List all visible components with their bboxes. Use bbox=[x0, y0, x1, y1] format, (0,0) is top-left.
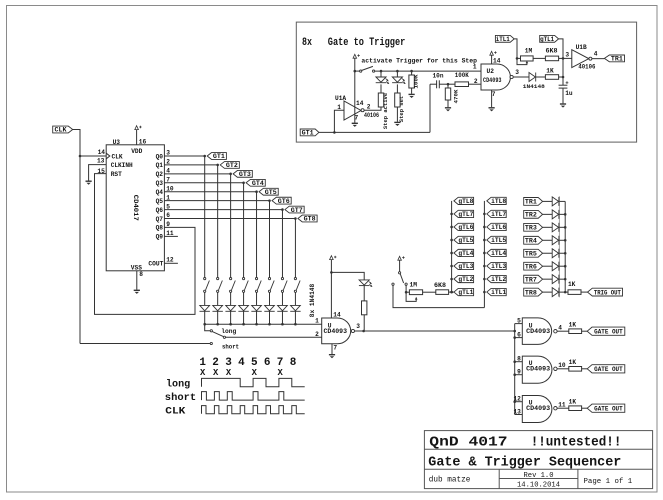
diode step 1 1N4148 bbox=[200, 305, 210, 311]
wire TR diode bus vertical bbox=[564, 201, 566, 292]
resistor LED current limit bbox=[362, 301, 367, 315]
svg-text:gTL1: gTL1 bbox=[540, 36, 554, 43]
LED Step set bbox=[392, 77, 406, 84]
inverter U1A 40106 bbox=[344, 101, 361, 120]
node junction long bus 3 bbox=[229, 323, 232, 326]
svg-text:short: short bbox=[222, 343, 239, 350]
svg-text:gTL1: gTL1 bbox=[458, 289, 473, 296]
flag iTL2 bbox=[487, 275, 506, 282]
resistor 1K gate out 1 bbox=[569, 329, 582, 334]
diode step 7 1N4148 bbox=[277, 305, 287, 311]
ground below 100K bbox=[409, 94, 415, 98]
svg-text:CLKINH: CLKINH bbox=[111, 162, 133, 169]
node junction long bus 2 bbox=[216, 323, 219, 326]
nand gate U CD4093 (gate mixer) bbox=[322, 318, 351, 344]
flag TRIG OUT bbox=[588, 288, 623, 296]
node junction Q4 bbox=[255, 190, 258, 193]
wire Q4 down to switch bbox=[256, 192, 258, 278]
wire gTL1 down bbox=[559, 39, 563, 59]
node junction Q0 bbox=[203, 155, 206, 158]
switch step 7 bbox=[281, 278, 287, 293]
svg-text:GATE OUT: GATE OUT bbox=[594, 366, 623, 373]
svg-text:Rev 1.0: Rev 1.0 bbox=[524, 472, 554, 480]
wire 1K to node bbox=[559, 76, 563, 78]
svg-text:2: 2 bbox=[315, 331, 319, 338]
title block row separator 1 bbox=[424, 448, 652, 450]
svg-text:Q8: Q8 bbox=[156, 225, 164, 232]
node junction iTL6 bbox=[483, 226, 486, 229]
node junction iTL2 bbox=[483, 278, 486, 281]
resistor 100K to U2 pin2 bbox=[455, 82, 469, 87]
node junction Q5 bbox=[268, 199, 271, 202]
svg-text:1N4148: 1N4148 bbox=[523, 83, 546, 90]
svg-text:CD4017: CD4017 bbox=[132, 195, 139, 221]
resistor 470K to ground bbox=[447, 84, 449, 88]
power +V for U2 bbox=[490, 51, 497, 55]
node junction iTL1 bbox=[483, 291, 486, 294]
wire power to switch bbox=[399, 260, 401, 272]
wire CLKINH pin 13 to ground bbox=[89, 165, 107, 181]
wire diode 1 to long bus bbox=[204, 311, 206, 324]
title block row separator 2 bbox=[424, 468, 652, 470]
waveform long bbox=[202, 378, 305, 386]
wire diode 5 to long bus bbox=[256, 311, 258, 324]
svg-text:1M: 1M bbox=[525, 47, 533, 54]
svg-text:12: 12 bbox=[166, 256, 174, 263]
node junction iTL4 bbox=[483, 252, 486, 255]
wire nand output to bottom gates bbox=[355, 330, 515, 332]
wire U1A input bbox=[334, 110, 344, 132]
waveform CLK bbox=[202, 406, 305, 414]
inverter U1B 40106 bbox=[572, 50, 589, 68]
svg-text:!!untested!!: !!untested!! bbox=[531, 434, 622, 450]
svg-text:gTL4: gTL4 bbox=[458, 250, 473, 257]
svg-text:long: long bbox=[221, 328, 236, 335]
flag iTL7 bbox=[487, 210, 506, 217]
wire 1M left lead bbox=[517, 57, 521, 59]
node junction gTL2 bbox=[450, 278, 453, 281]
svg-text:4: 4 bbox=[594, 51, 598, 58]
flag TR5 bbox=[524, 249, 543, 257]
wire power to LED bbox=[331, 272, 364, 280]
wire TR5 to diode bbox=[543, 252, 553, 254]
svg-text:gTL2: gTL2 bbox=[458, 276, 473, 283]
flag gTL8 bbox=[454, 197, 474, 204]
diode TR1 bbox=[552, 197, 559, 206]
wire TR1 to diode bbox=[543, 200, 553, 202]
svg-text:8x 1N4148: 8x 1N4148 bbox=[309, 284, 316, 318]
svg-text:1M: 1M bbox=[410, 281, 418, 288]
wire LED1 to resistor bbox=[380, 84, 382, 93]
flag GT3 bbox=[233, 170, 252, 177]
node junction gTL1 bbox=[450, 291, 453, 294]
node junction iTL3 bbox=[483, 265, 486, 268]
svg-text:6: 6 bbox=[264, 357, 271, 369]
node junction TR bus 3 bbox=[564, 226, 567, 229]
ground below main nand bbox=[329, 355, 335, 359]
ground below 470K bbox=[445, 108, 451, 112]
wire long bus to long contact bbox=[205, 324, 211, 331]
svg-text:Q5: Q5 bbox=[156, 198, 164, 205]
svg-text:8x: 8x bbox=[302, 37, 312, 49]
wire 470K to ground bbox=[447, 100, 449, 107]
flag gTL1 bbox=[540, 35, 559, 42]
LED Step active bbox=[376, 77, 390, 84]
wire switch 6 to diode bbox=[269, 292, 271, 305]
svg-text:10n: 10n bbox=[433, 73, 444, 80]
node junction 1M wiper bbox=[405, 291, 408, 294]
wire switch 3 to diode bbox=[230, 292, 232, 305]
svg-text:gTL6: gTL6 bbox=[458, 224, 473, 231]
svg-text:dub matze: dub matze bbox=[429, 476, 471, 485]
wire diode to 1K bbox=[536, 76, 546, 78]
wire TR8 to diode bbox=[543, 291, 553, 293]
wire Q9 stub bbox=[164, 235, 178, 237]
svg-text:TR6: TR6 bbox=[525, 263, 537, 270]
svg-text:9: 9 bbox=[166, 221, 170, 228]
svg-text:3: 3 bbox=[515, 69, 519, 76]
svg-text:TR4: TR4 bbox=[525, 237, 537, 244]
node junction iTL7 bbox=[483, 213, 486, 216]
ground below U1A bbox=[352, 123, 358, 127]
pin 6 stub bbox=[515, 337, 523, 339]
wire 6K8 to node bbox=[559, 57, 563, 59]
svg-text:1u: 1u bbox=[565, 90, 573, 97]
svg-text:CLK: CLK bbox=[55, 127, 67, 134]
svg-text:100K: 100K bbox=[455, 72, 469, 79]
flag GT1 bbox=[207, 153, 226, 160]
node junction TR bus 2 bbox=[564, 213, 567, 216]
svg-text:CD4093: CD4093 bbox=[526, 405, 550, 412]
wire to LED2 bbox=[396, 71, 398, 77]
wire gate2 output bbox=[557, 368, 569, 370]
wire 1M to 6K8 bbox=[423, 291, 436, 293]
svg-text:CLK: CLK bbox=[112, 153, 123, 160]
svg-text:4: 4 bbox=[558, 325, 562, 332]
flag iTL5 bbox=[487, 236, 506, 243]
flag GT5 bbox=[259, 188, 278, 195]
svg-text:X: X bbox=[252, 368, 258, 378]
switch step 8 bbox=[294, 278, 300, 293]
LED gate indicator bbox=[359, 280, 373, 287]
wire U1B output bbox=[592, 58, 605, 60]
svg-text:long: long bbox=[166, 379, 190, 391]
diode TR4 bbox=[552, 236, 559, 245]
switch long/short select bbox=[210, 330, 212, 332]
title block column divider 1 bbox=[498, 469, 500, 488]
svg-text:U3: U3 bbox=[113, 139, 121, 146]
flag GT2 bbox=[220, 162, 239, 169]
switch step 2 bbox=[217, 278, 223, 293]
node junction long bus 7 bbox=[281, 323, 284, 326]
ground below U2 bbox=[489, 108, 495, 112]
wire to LED1 bbox=[380, 71, 382, 77]
svg-text:gTL8: gTL8 bbox=[458, 198, 473, 205]
svg-text:14: 14 bbox=[333, 311, 341, 318]
svg-text:3: 3 bbox=[356, 323, 360, 330]
wire switch 7 to diode bbox=[281, 292, 283, 305]
flag GATE OUT 3 bbox=[587, 404, 625, 412]
diode step 8 1N4148 bbox=[290, 305, 300, 311]
svg-text:14: 14 bbox=[98, 149, 106, 156]
box: 8x Gate to Trigger sub-circuit bbox=[296, 22, 636, 142]
wire 1K to TRIG OUT bbox=[581, 291, 588, 293]
clock input marker bbox=[106, 153, 110, 159]
svg-text:U1B: U1B bbox=[576, 44, 587, 51]
svg-text:13: 13 bbox=[97, 158, 105, 165]
svg-text:gTL7: gTL7 bbox=[458, 211, 473, 218]
svg-text:short: short bbox=[165, 392, 196, 404]
diode 1N4148 bbox=[529, 73, 536, 82]
node junction Q7 bbox=[294, 217, 297, 220]
flag iTL1 bbox=[487, 288, 506, 295]
svg-text:1K: 1K bbox=[569, 359, 577, 366]
nand gate U2 CD4093 bbox=[481, 64, 510, 90]
node junction LED step-active bbox=[380, 70, 383, 73]
svg-text:12: 12 bbox=[513, 396, 521, 403]
flag iTL3 bbox=[487, 262, 506, 269]
diode TR2 bbox=[552, 210, 559, 219]
node junction Q3 bbox=[242, 181, 245, 184]
power +V for main nand bbox=[330, 256, 337, 260]
svg-text:TR1: TR1 bbox=[611, 56, 623, 63]
wire diode TR6 to bus bbox=[559, 265, 565, 267]
resistor for Step set LED bbox=[395, 93, 400, 107]
wire RST pin 15 loop from Q8 bbox=[95, 174, 196, 315]
svg-text:TR8: TR8 bbox=[525, 289, 537, 296]
wire resistor to output node bbox=[363, 315, 365, 331]
svg-text:GT4: GT4 bbox=[252, 180, 264, 187]
svg-text:iTL8: iTL8 bbox=[491, 198, 506, 205]
switch step 5 bbox=[255, 278, 261, 293]
flag CLK (clock input) bbox=[53, 126, 73, 133]
svg-text:7: 7 bbox=[492, 91, 496, 98]
svg-text:GT8: GT8 bbox=[304, 216, 316, 223]
wire diode TR5 to bus bbox=[559, 252, 565, 254]
wire iTL1 down to 1M bbox=[514, 39, 517, 59]
switch gate-time enable bbox=[399, 272, 401, 274]
wire 100K to ground bbox=[411, 88, 413, 94]
power +V for 1M network bbox=[398, 256, 405, 260]
wire select common to nand pin 2 bbox=[226, 336, 322, 338]
svg-text:CD4093: CD4093 bbox=[526, 328, 550, 335]
wire diode 4 to long bus bbox=[243, 311, 245, 324]
diode step 6 1N4148 bbox=[264, 305, 274, 311]
wire Q6 down to switch bbox=[281, 210, 283, 278]
wire Q1 output bbox=[164, 164, 217, 166]
svg-text:iTL2: iTL2 bbox=[491, 276, 506, 283]
node junction RC bbox=[447, 83, 450, 86]
svg-text:1: 1 bbox=[315, 317, 319, 324]
svg-text:GT5: GT5 bbox=[265, 189, 277, 196]
node junction Q2 bbox=[229, 173, 232, 176]
switch step 6 bbox=[268, 278, 274, 293]
node junction gate2 pin9 bbox=[513, 373, 516, 376]
svg-text:8: 8 bbox=[290, 357, 297, 369]
flag gTL5 bbox=[454, 236, 474, 243]
capacitor 1u polarized bbox=[559, 84, 568, 86]
svg-text:TR1: TR1 bbox=[525, 199, 537, 206]
nand gate U CD4093 (gate out 3) bbox=[522, 396, 552, 423]
wire COUT stub bbox=[164, 262, 178, 264]
wire switched step line bbox=[375, 70, 481, 72]
svg-text:X: X bbox=[200, 368, 206, 378]
wire diode TR4 to bus bbox=[559, 239, 565, 241]
diode step 4 1N4148 bbox=[238, 305, 248, 311]
flag gTL4 bbox=[454, 249, 474, 256]
wire to 100K resistor bbox=[411, 71, 413, 75]
svg-text:GT3: GT3 bbox=[239, 171, 251, 178]
svg-text:iTL1: iTL1 bbox=[496, 36, 510, 43]
svg-text:CD4093: CD4093 bbox=[526, 366, 550, 373]
flag TR3 bbox=[524, 223, 543, 231]
flag iTL8 bbox=[487, 197, 506, 204]
svg-text:Q7: Q7 bbox=[156, 216, 164, 223]
svg-text:1K: 1K bbox=[568, 281, 576, 288]
node junction power to switch bbox=[354, 70, 357, 73]
svg-text:X: X bbox=[213, 368, 219, 378]
wire switch 1 to diode bbox=[204, 292, 206, 305]
title block column divider 2 bbox=[577, 469, 579, 488]
wire cap to ground bbox=[562, 88, 564, 103]
diode TR8 bbox=[552, 288, 559, 297]
wire CLK to pin 14 bbox=[80, 155, 106, 157]
node junction Q6 bbox=[281, 208, 284, 211]
flag GT1 (input to gate-to-trigger) bbox=[300, 129, 319, 136]
svg-text:Q0: Q0 bbox=[156, 153, 164, 160]
flag iTL6 bbox=[487, 223, 506, 230]
svg-text:TR5: TR5 bbox=[525, 250, 537, 257]
diode TR6 bbox=[552, 262, 559, 271]
wire U2 power pin 14 bbox=[491, 55, 493, 64]
resistor 100K pull bbox=[409, 75, 414, 88]
wire LED2 to resistor bbox=[396, 84, 398, 93]
switch: activate Trigger for this Step bbox=[360, 70, 362, 72]
switch step 4 bbox=[242, 278, 248, 293]
wire Q2 output bbox=[164, 173, 230, 175]
node junction long bus 6 bbox=[268, 323, 271, 326]
svg-text:6: 6 bbox=[517, 331, 521, 338]
wire node down to cap bbox=[562, 58, 564, 85]
node junction gate3 pin12 bbox=[513, 400, 516, 403]
svg-text:iTL4: iTL4 bbox=[491, 250, 506, 257]
wire Q4 output bbox=[164, 191, 256, 193]
wire U1A power rail vertical bbox=[354, 58, 356, 123]
ic U3 CD4017 body bbox=[106, 145, 164, 271]
node junction Q1 bbox=[216, 164, 219, 167]
wire GT1 to RC network bbox=[319, 131, 430, 133]
svg-text:Q3: Q3 bbox=[156, 180, 164, 187]
wire up to 10n cap bbox=[429, 84, 431, 132]
wire gate3 output bbox=[557, 407, 569, 409]
svg-text:TR2: TR2 bbox=[525, 212, 537, 219]
flag gTL6 bbox=[454, 223, 474, 230]
svg-text:X: X bbox=[277, 368, 283, 378]
svg-text:7: 7 bbox=[333, 344, 337, 351]
power +V for U1A bbox=[353, 54, 360, 58]
flag gTL1 bbox=[454, 288, 474, 295]
svg-text:11: 11 bbox=[558, 402, 566, 409]
node junction gTL3 bbox=[450, 265, 453, 268]
svg-text:iTL7: iTL7 bbox=[491, 211, 506, 218]
svg-text:Q4: Q4 bbox=[156, 189, 164, 196]
wire U2 ground pin 7 bbox=[491, 90, 493, 107]
svg-text:6K8: 6K8 bbox=[546, 47, 558, 54]
flag TR7 bbox=[524, 275, 543, 283]
wire cap to junction bbox=[439, 83, 448, 85]
node junction long bus 5 bbox=[255, 323, 258, 326]
svg-text:activate Trigger for this Step: activate Trigger for this Step bbox=[361, 58, 477, 65]
svg-text:14.10.2014: 14.10.2014 bbox=[517, 481, 560, 489]
resistor 1K trig out bbox=[568, 290, 581, 295]
node junction long bus 8 bbox=[294, 323, 297, 326]
svg-text:2: 2 bbox=[474, 78, 478, 85]
svg-text:Page 1 of 1: Page 1 of 1 bbox=[584, 478, 633, 486]
flag TR1 bbox=[524, 198, 543, 206]
flag GATE OUT 2 bbox=[587, 365, 625, 373]
svg-text:RST: RST bbox=[111, 171, 122, 178]
node junction TR bus 4 bbox=[564, 239, 567, 242]
svg-text:10: 10 bbox=[558, 362, 566, 369]
trimpot 1M gate time bbox=[409, 290, 422, 295]
svg-text:U1A: U1A bbox=[335, 95, 346, 102]
svg-text:+: + bbox=[565, 80, 568, 86]
wire U1A output pin 2 bbox=[364, 107, 381, 110]
wire iTL bus vertical bbox=[483, 201, 485, 308]
wire diode TR2 to bus bbox=[559, 213, 565, 215]
wire diode 8 to long bus bbox=[294, 311, 296, 324]
ground below 1u bbox=[560, 104, 566, 108]
flag gTL2 bbox=[454, 275, 474, 282]
node junction TR bus 6 bbox=[564, 265, 567, 268]
resistor for Step active LED bbox=[378, 93, 383, 107]
svg-text:GATE OUT: GATE OUT bbox=[594, 328, 623, 335]
switch step 1 bbox=[204, 278, 210, 293]
wire 100K to U2 pin 2 bbox=[469, 83, 482, 85]
svg-text:X: X bbox=[226, 368, 232, 378]
diode TR7 bbox=[552, 275, 559, 284]
wire 1M to 6K8 bbox=[533, 57, 545, 59]
node junction gTL6 bbox=[450, 226, 453, 229]
wire 1K to GATE OUT 3 bbox=[582, 407, 588, 409]
pin 5 stub bbox=[515, 323, 523, 325]
diode step 2 1N4148 bbox=[212, 305, 222, 311]
node junction gTL4 bbox=[450, 252, 453, 255]
wire Q2 down to switch bbox=[230, 174, 232, 278]
node junction gTL1 bbox=[450, 291, 453, 294]
svg-text:2: 2 bbox=[367, 104, 371, 111]
trimpot 1M bbox=[521, 56, 534, 61]
svg-text:Gate & Trigger Sequencer: Gate & Trigger Sequencer bbox=[428, 454, 621, 470]
node junction bottom gates feed bbox=[513, 330, 516, 333]
svg-text:Step active: Step active bbox=[382, 92, 389, 129]
resistor 6K8 bbox=[545, 56, 558, 61]
svg-text:CLK: CLK bbox=[165, 407, 185, 418]
svg-text:3: 3 bbox=[565, 52, 569, 59]
svg-text:QnD 4017: QnD 4017 bbox=[429, 434, 507, 450]
wire TR6 to diode bbox=[543, 265, 553, 267]
svg-text:14: 14 bbox=[493, 58, 501, 65]
wire bottom gates input bus bbox=[514, 324, 516, 415]
wire pin 16 to power bbox=[136, 130, 138, 145]
wire 6K8 to gTL1 bbox=[449, 291, 454, 293]
svg-text:13: 13 bbox=[513, 408, 521, 415]
wire Q5 down to switch bbox=[269, 201, 271, 278]
wire 1K to GATE OUT 1 bbox=[582, 330, 588, 332]
pin 12 stub bbox=[515, 401, 523, 403]
svg-text:14: 14 bbox=[356, 100, 364, 107]
flag TR2 bbox=[524, 210, 543, 218]
